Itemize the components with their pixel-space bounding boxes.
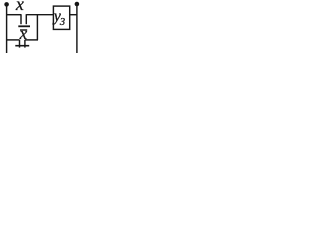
wire bottom branch: [6, 39, 20, 41]
contact xbar (right plate): [24, 40, 26, 48]
wire top branch right: [26, 14, 53, 16]
contact x (bar): [18, 25, 30, 27]
node B (right terminal dot): [75, 2, 80, 7]
svg-text:3: 3: [59, 17, 65, 28]
wire middle vertical: [36, 15, 38, 40]
wire left rail: [6, 4, 8, 53]
contact x (right plate): [25, 14, 27, 24]
node A (left terminal dot): [4, 2, 9, 7]
svg-text:x: x: [19, 24, 28, 43]
wire bottom branch right: [25, 39, 38, 41]
svg-text:x: x: [15, 0, 24, 14]
contact x (make contact, left plate): [20, 14, 22, 24]
contact xbar (left plate): [19, 40, 21, 48]
wire box to right rail: [70, 14, 77, 16]
box y3: [53, 6, 69, 29]
wire top branch left: [6, 14, 21, 16]
label xbar overbar: [20, 29, 27, 30]
contact xbar (bar): [15, 45, 29, 47]
wire right rail: [76, 4, 78, 53]
